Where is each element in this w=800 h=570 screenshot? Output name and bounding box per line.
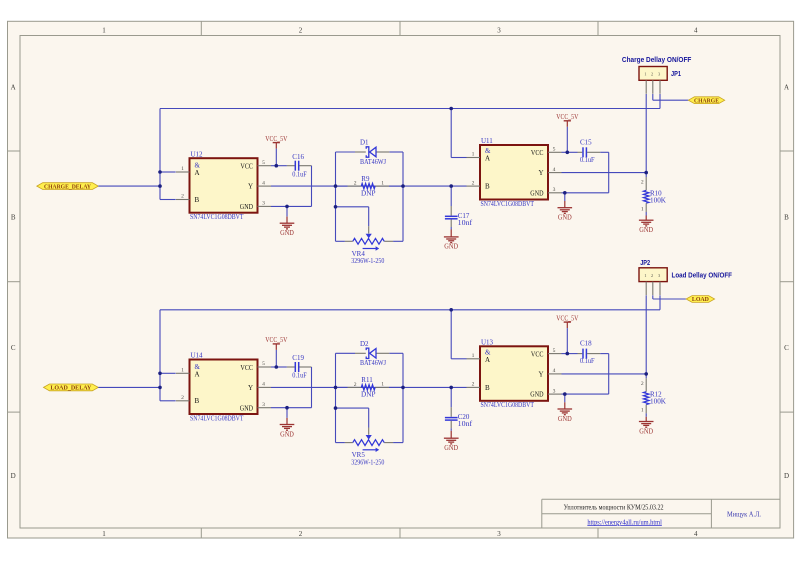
svg-text:C: C bbox=[784, 344, 789, 352]
node input junctions bbox=[158, 170, 162, 174]
ground (C17) bbox=[450, 227, 452, 230]
svg-text:1: 1 bbox=[644, 273, 646, 278]
svg-text:LOAD: LOAD bbox=[692, 296, 709, 303]
svg-text:100K: 100K bbox=[650, 196, 666, 204]
svg-text:GND: GND bbox=[530, 189, 543, 197]
svg-text:1: 1 bbox=[102, 530, 106, 538]
svg-text:B: B bbox=[485, 384, 490, 392]
svg-text:3: 3 bbox=[553, 388, 556, 394]
wire to U14 pin 1 bbox=[160, 372, 176, 374]
svg-text:B: B bbox=[784, 213, 789, 221]
svg-text:JP1: JP1 bbox=[671, 71, 681, 78]
svg-text:2: 2 bbox=[641, 180, 644, 186]
svg-text:3: 3 bbox=[658, 72, 660, 77]
svg-text:GND: GND bbox=[280, 230, 294, 237]
wire LOAD_DELAY to input node bbox=[98, 386, 160, 388]
wire U13 Y output bbox=[562, 373, 647, 375]
wire wiper bbox=[336, 206, 369, 208]
svg-text:D: D bbox=[11, 472, 16, 480]
svg-text:3: 3 bbox=[497, 530, 501, 538]
svg-text:B: B bbox=[485, 183, 490, 191]
port LOAD_DELAY bbox=[44, 384, 99, 391]
svg-text:3: 3 bbox=[262, 402, 265, 408]
svg-text:2: 2 bbox=[299, 530, 303, 538]
svg-text:Мищук А.Л.: Мищук А.Л. bbox=[727, 509, 761, 518]
wire U11 Y output bbox=[562, 172, 647, 174]
ground (U14) bbox=[286, 408, 288, 418]
ground (U11) bbox=[564, 193, 566, 201]
node input junctions bbox=[158, 372, 162, 376]
svg-text:VCC: VCC bbox=[531, 149, 544, 157]
wire U12 Y to U11 B bbox=[271, 185, 467, 187]
svg-text:10nf: 10nf bbox=[458, 420, 473, 428]
ground (U12) bbox=[286, 206, 288, 216]
svg-text:SN74LVC1G08DBVT: SN74LVC1G08DBVT bbox=[190, 414, 244, 422]
svg-text:Charge Dellay ON/OFF: Charge Dellay ON/OFF bbox=[622, 57, 692, 64]
capacitor C18 0.1uF bbox=[578, 353, 583, 355]
svg-text:SN74LVC1G08DBVT: SN74LVC1G08DBVT bbox=[481, 401, 535, 409]
svg-text:SN74LVC1G08DBVT: SN74LVC1G08DBVT bbox=[190, 213, 244, 221]
svg-text:C15: C15 bbox=[580, 138, 592, 146]
wire GND net U13 bbox=[562, 393, 609, 395]
wire JP2 pin 1 down bbox=[645, 295, 647, 378]
svg-text:2: 2 bbox=[299, 26, 303, 34]
ground (C20) bbox=[450, 428, 452, 431]
wire CHARGE_DELAY to input node bbox=[98, 185, 160, 187]
svg-text:GND: GND bbox=[558, 416, 572, 423]
wire U14 Y to U13 B bbox=[271, 386, 467, 388]
port CHARGE_DELAY bbox=[37, 183, 99, 190]
svg-text:GND: GND bbox=[240, 203, 253, 211]
resistor R10 100K bbox=[645, 177, 647, 190]
resistor R11 DNP bbox=[336, 386, 348, 388]
wire GND net U11 bbox=[562, 192, 609, 194]
node loop junctions bbox=[334, 386, 338, 390]
svg-text:2: 2 bbox=[354, 382, 357, 388]
svg-text:5: 5 bbox=[262, 160, 265, 166]
potentiometer VR4 3296W-1-250 bbox=[368, 207, 370, 226]
svg-text:R9: R9 bbox=[361, 175, 370, 183]
svg-text:D2: D2 bbox=[360, 340, 369, 348]
svg-text:2: 2 bbox=[181, 194, 184, 200]
svg-text:1: 1 bbox=[381, 180, 384, 186]
wire wiper bbox=[336, 407, 369, 409]
svg-text:DNP: DNP bbox=[361, 391, 376, 399]
svg-text:5: 5 bbox=[553, 348, 556, 354]
wire loop right vertical bbox=[402, 353, 404, 442]
diode D1 BAT46WJ bbox=[336, 151, 356, 153]
wire top net bbox=[160, 108, 660, 110]
svg-text:3: 3 bbox=[262, 201, 265, 207]
svg-text:2: 2 bbox=[651, 273, 653, 278]
svg-text:3: 3 bbox=[658, 273, 660, 278]
wire C15 to GND net bbox=[600, 151, 608, 153]
node U11 Y junction bbox=[644, 171, 648, 175]
svg-text:B: B bbox=[11, 213, 16, 221]
svg-text:GND: GND bbox=[280, 431, 294, 438]
wire VCC net U14 bbox=[271, 366, 287, 368]
svg-text:1: 1 bbox=[472, 152, 475, 158]
svg-text:VCC_5V: VCC_5V bbox=[265, 136, 287, 143]
svg-text:VCC_5V: VCC_5V bbox=[265, 337, 287, 344]
jumper JP1 bbox=[639, 67, 667, 81]
svg-text:0.1uF: 0.1uF bbox=[580, 357, 595, 365]
wire JP1 pin 3 to top net bbox=[659, 94, 661, 109]
ground (R10) bbox=[645, 212, 647, 216]
svg-text:Y: Y bbox=[538, 169, 543, 177]
wire to U12 pin 1 bbox=[160, 171, 176, 173]
svg-text:4: 4 bbox=[553, 368, 556, 374]
svg-text:VCC_5V: VCC_5V bbox=[556, 114, 578, 121]
svg-text:BAT46WJ: BAT46WJ bbox=[360, 158, 386, 166]
wire input vertical bbox=[159, 310, 161, 401]
wire top net bbox=[160, 309, 660, 311]
svg-text:VCC_5V: VCC_5V bbox=[556, 315, 578, 322]
wire C18 to GND net bbox=[600, 353, 608, 355]
capacitor C15 0.1uF bbox=[578, 151, 583, 153]
jumper JP2 bbox=[639, 268, 667, 282]
node loop junctions bbox=[334, 184, 338, 188]
svg-text:https://energy4all.ru/um.html: https://energy4all.ru/um.html bbox=[587, 518, 662, 526]
svg-text:CHARGE_DELAY: CHARGE_DELAY bbox=[44, 183, 91, 190]
wire VCC net U11 bbox=[562, 151, 578, 153]
svg-text:B: B bbox=[195, 397, 200, 405]
svg-text:GND: GND bbox=[558, 215, 572, 222]
svg-text:Load Dellay ON/OFF: Load Dellay ON/OFF bbox=[672, 273, 733, 280]
svg-text:2: 2 bbox=[181, 395, 184, 401]
svg-text:A: A bbox=[195, 371, 200, 379]
svg-text:3296W-1-250: 3296W-1-250 bbox=[351, 458, 384, 466]
node U13 Y junction bbox=[644, 372, 648, 376]
op-amp U12 (AND gate SN74LVC1G08DBVT) bbox=[190, 158, 258, 213]
capacitor C16 0.1uF bbox=[287, 165, 295, 167]
svg-text:U13: U13 bbox=[481, 339, 494, 347]
ground (U13) bbox=[564, 394, 566, 402]
svg-text:2: 2 bbox=[472, 180, 475, 186]
svg-text:CHARGE: CHARGE bbox=[694, 97, 719, 104]
svg-text:100K: 100K bbox=[650, 398, 666, 406]
port CHARGE bbox=[688, 97, 724, 104]
svg-text:4: 4 bbox=[553, 167, 556, 173]
wire to U14 pin 2 bbox=[160, 400, 176, 402]
svg-text:VCC: VCC bbox=[240, 364, 253, 372]
svg-text:0.1uF: 0.1uF bbox=[292, 170, 307, 178]
svg-text:Уплотнитель мощности КУМ/25.03: Уплотнитель мощности КУМ/25.03.22 bbox=[564, 502, 664, 511]
resistor R12 100K bbox=[645, 378, 647, 391]
svg-text:1: 1 bbox=[641, 408, 644, 414]
svg-text:U11: U11 bbox=[481, 137, 493, 145]
svg-text:0.1uF: 0.1uF bbox=[292, 372, 307, 380]
svg-text:2: 2 bbox=[651, 72, 653, 77]
capacitor C19 0.1uF bbox=[287, 366, 295, 368]
svg-text:GND: GND bbox=[530, 391, 543, 399]
wire JP1 pin 1 down bbox=[645, 94, 647, 177]
capacitor C20 10nf bbox=[450, 387, 452, 407]
wire JP2 pin 3 to top net bbox=[659, 295, 661, 310]
svg-text:1: 1 bbox=[641, 206, 644, 212]
svg-text:GND: GND bbox=[444, 445, 458, 452]
wire JP1 pin 2 to port bbox=[652, 94, 654, 100]
svg-text:2: 2 bbox=[354, 181, 357, 187]
op-amp U11 (AND gate SN74LVC1G08DBVT) bbox=[480, 145, 548, 200]
wire C16 to GND net bbox=[311, 166, 313, 207]
svg-text:BAT46WJ: BAT46WJ bbox=[360, 359, 386, 367]
ground (R12) bbox=[645, 413, 647, 417]
svg-text:GND: GND bbox=[639, 428, 653, 435]
svg-text:5: 5 bbox=[553, 147, 556, 153]
potentiometer VR5 3296W-1-250 bbox=[368, 408, 370, 427]
svg-text:JP2: JP2 bbox=[640, 260, 650, 267]
svg-text:A: A bbox=[784, 83, 789, 91]
title block bbox=[542, 498, 780, 500]
wire to U12 pin 2 bbox=[160, 199, 176, 201]
svg-text:U14: U14 bbox=[191, 352, 204, 360]
svg-text:1: 1 bbox=[472, 353, 475, 359]
op-amp U14 (AND gate SN74LVC1G08DBVT) bbox=[190, 360, 258, 415]
svg-text:3296W-1-250: 3296W-1-250 bbox=[351, 257, 384, 265]
svg-text:3: 3 bbox=[497, 26, 501, 34]
capacitor C17 10nf bbox=[450, 186, 452, 206]
svg-text:R11: R11 bbox=[361, 376, 373, 384]
svg-text:4: 4 bbox=[262, 180, 265, 186]
op-amp U13 (AND gate SN74LVC1G08DBVT) bbox=[480, 346, 548, 401]
svg-text:SN74LVC1G08DBVT: SN74LVC1G08DBVT bbox=[481, 200, 535, 208]
wire C19 to GND net bbox=[311, 367, 313, 408]
svg-text:1: 1 bbox=[644, 72, 646, 77]
svg-text:1: 1 bbox=[181, 166, 184, 172]
svg-text:C19: C19 bbox=[292, 354, 304, 362]
svg-text:1: 1 bbox=[102, 26, 106, 34]
svg-text:B: B bbox=[195, 196, 200, 204]
wire GND net U14 bbox=[271, 407, 312, 409]
svg-text:A: A bbox=[11, 83, 16, 91]
svg-text:Y: Y bbox=[248, 384, 253, 392]
diode D2 BAT46WJ bbox=[336, 352, 356, 354]
svg-text:D1: D1 bbox=[360, 139, 369, 147]
wire loop left vertical bbox=[335, 152, 337, 241]
svg-text:4: 4 bbox=[694, 26, 698, 34]
svg-text:1: 1 bbox=[381, 382, 384, 388]
svg-text:GND: GND bbox=[444, 244, 458, 251]
wire loop left vertical bbox=[335, 353, 337, 442]
svg-text:3: 3 bbox=[553, 187, 556, 193]
wire JP2 pin 2 to port bbox=[652, 295, 654, 299]
port LOAD bbox=[686, 296, 715, 303]
wire top net to U13 pin 1 bbox=[450, 310, 452, 359]
svg-text:A: A bbox=[485, 356, 490, 364]
svg-text:4: 4 bbox=[694, 530, 698, 538]
wire VCC net U12 bbox=[271, 165, 287, 167]
svg-text:A: A bbox=[195, 169, 200, 177]
svg-text:10nf: 10nf bbox=[458, 219, 473, 227]
svg-text:DNP: DNP bbox=[361, 189, 376, 197]
svg-text:D: D bbox=[784, 472, 789, 480]
svg-text:C16: C16 bbox=[292, 153, 304, 161]
svg-text:0.1uF: 0.1uF bbox=[580, 156, 595, 164]
wire input vertical bbox=[159, 109, 161, 200]
svg-text:A: A bbox=[485, 155, 490, 163]
svg-text:C18: C18 bbox=[580, 340, 592, 348]
svg-text:VCC: VCC bbox=[240, 163, 253, 171]
svg-text:C: C bbox=[11, 344, 16, 352]
svg-text:5: 5 bbox=[262, 361, 265, 367]
svg-text:2: 2 bbox=[472, 382, 475, 388]
svg-text:Y: Y bbox=[248, 183, 253, 191]
svg-text:2: 2 bbox=[641, 381, 644, 387]
wire VCC net U13 bbox=[562, 353, 578, 355]
wire GND net U12 bbox=[271, 205, 312, 207]
svg-text:VCC: VCC bbox=[531, 350, 544, 358]
svg-text:GND: GND bbox=[639, 227, 653, 234]
svg-text:Y: Y bbox=[538, 370, 543, 378]
wire loop right vertical bbox=[402, 152, 404, 241]
resistor R9 DNP bbox=[336, 185, 348, 187]
svg-text:U12: U12 bbox=[191, 150, 204, 158]
svg-text:GND: GND bbox=[240, 404, 253, 412]
wire top net to U11 pin 1 bbox=[450, 109, 452, 158]
svg-text:1: 1 bbox=[181, 368, 184, 374]
svg-text:4: 4 bbox=[262, 382, 265, 388]
svg-text:LOAD_DELAY: LOAD_DELAY bbox=[50, 385, 92, 392]
